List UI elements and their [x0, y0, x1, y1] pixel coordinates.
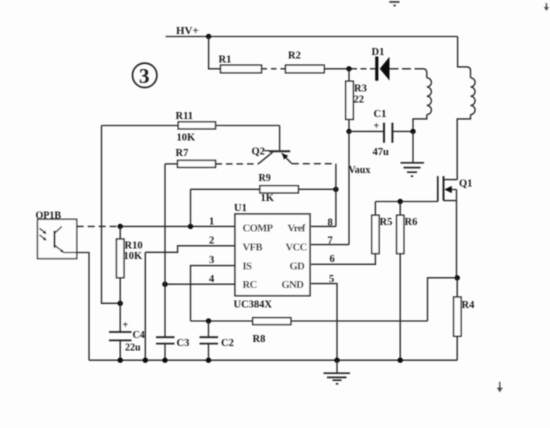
wire VCC pin7	[311, 244, 349, 246]
svg-text:5: 5	[329, 274, 334, 285]
svg-text:OP1B: OP1B	[36, 210, 62, 221]
svg-text:R4: R4	[462, 300, 476, 311]
node R3/C1/Vaux	[346, 129, 351, 134]
resistor R6	[397, 215, 404, 253]
icon down arrow bottom right	[497, 382, 503, 393]
node R6 top	[398, 199, 403, 204]
svg-text:D1: D1	[372, 47, 385, 58]
resistor R5	[372, 215, 379, 253]
svg-text:COMP: COMP	[243, 224, 274, 235]
resistor R1	[221, 65, 262, 73]
node HV+ junction	[206, 34, 211, 39]
svg-text:10K: 10K	[124, 251, 144, 262]
node RC/C3	[162, 282, 167, 287]
svg-text:C2: C2	[221, 338, 234, 349]
resistor R11	[178, 122, 215, 129]
svg-text:+: +	[123, 320, 129, 331]
svg-text:10K: 10K	[177, 133, 197, 144]
resistor R9	[260, 186, 299, 193]
resistor R6 leads	[399, 202, 401, 361]
transformer T1 right winding top lead	[458, 37, 471, 78]
svg-text:GND: GND	[282, 280, 305, 291]
icon scrollbar fragment top	[389, 1, 399, 7]
symbol circled 3	[133, 63, 157, 87]
wire Q2 emitter to Vref pin8	[311, 164, 336, 227]
capacitor C4	[109, 303, 132, 360]
svg-text:+: +	[374, 121, 380, 132]
svg-text:R9: R9	[259, 173, 271, 184]
transformer T1 left winding top lead	[423, 69, 427, 78]
svg-text:Q2: Q2	[252, 146, 265, 157]
svg-text:U1: U1	[234, 203, 247, 214]
node R8/C2	[206, 318, 211, 323]
wire IS pin3	[191, 266, 236, 321]
svg-text:8: 8	[328, 218, 333, 229]
svg-text:R3: R3	[354, 84, 367, 95]
wire R7 left to C3 vertical	[164, 164, 166, 337]
icon down arrow top right	[544, 3, 549, 11]
resistor R4 leads	[456, 278, 458, 360]
svg-text:Vref: Vref	[288, 224, 306, 235]
optocoupler OP1B box	[38, 219, 77, 258]
svg-text:6: 6	[330, 254, 335, 265]
wire VFB to ground rail	[144, 252, 146, 360]
wire R8 to IS vertical	[191, 320, 253, 322]
svg-text:47u: 47u	[373, 147, 390, 158]
svg-text:3: 3	[209, 255, 214, 266]
diode D1	[375, 57, 389, 81]
wire R11 left vertical down	[102, 126, 121, 304]
transformer T1 left winding bottom lead	[413, 115, 427, 132]
svg-text:R2: R2	[288, 51, 301, 62]
capacitor C1	[349, 123, 413, 143]
node C3/rail	[162, 358, 167, 363]
ground aux (under C1)	[401, 131, 425, 176]
wire GND pin5	[311, 284, 337, 361]
resistor R10	[117, 239, 125, 278]
svg-text:R7: R7	[176, 148, 189, 159]
node VFB/rail	[143, 358, 148, 363]
svg-text:R11: R11	[176, 111, 194, 122]
wire HV+ down to R1	[209, 37, 221, 69]
svg-text:22u: 22u	[125, 342, 141, 353]
svg-text:R5: R5	[380, 217, 393, 228]
node C1/winding/ground	[410, 129, 415, 134]
svg-text:C4: C4	[133, 330, 145, 341]
resistor R3	[346, 81, 354, 119]
svg-text:1: 1	[209, 217, 214, 228]
transistor Q2	[259, 126, 292, 164]
node R10/C4/R11	[118, 301, 123, 306]
optocoupler OP1B phototransistor	[55, 227, 64, 253]
svg-text:C1: C1	[374, 109, 387, 120]
wire R11 row	[102, 125, 280, 127]
node R9/Q2 emitter/Vref	[333, 187, 338, 192]
resistor R7 leads	[165, 163, 178, 165]
svg-text:GD: GD	[290, 261, 306, 272]
wire Q2 emitter horizontal	[292, 163, 336, 165]
wire VFB pin2	[145, 246, 235, 253]
svg-text:C3: C3	[177, 338, 190, 349]
node R6/rail	[398, 358, 403, 363]
wire ground rail	[89, 359, 457, 361]
svg-text:RC: RC	[243, 280, 257, 291]
svg-text:Q1: Q1	[459, 179, 472, 190]
node GND/rail	[334, 358, 339, 363]
svg-text:HV+: HV+	[176, 25, 199, 37]
svg-text:VCC: VCC	[286, 243, 307, 254]
resistor R2	[286, 65, 325, 73]
node Q1 source / R4 / sense	[455, 275, 460, 280]
svg-text:4: 4	[209, 274, 215, 285]
resistor R4	[454, 297, 462, 336]
svg-text:7: 7	[328, 236, 333, 247]
transformer T1 right winding	[471, 78, 476, 115]
ground main	[324, 360, 351, 384]
mosfet Q1	[438, 176, 457, 201]
resistor R7	[178, 160, 216, 167]
wire Vaux (node to VCC pin7)	[348, 131, 350, 244]
svg-text:IS: IS	[243, 261, 253, 272]
node C4/rail	[118, 358, 123, 363]
node C2/rail	[206, 358, 211, 363]
svg-text:VFB: VFB	[243, 243, 263, 254]
svg-text:2: 2	[209, 236, 214, 247]
svg-text:R6: R6	[405, 217, 418, 228]
resistor R10 leads	[119, 226, 121, 303]
op-amp U1 IC box	[235, 214, 310, 296]
optocoupler light arrows	[40, 228, 47, 240]
svg-text:R10: R10	[125, 240, 143, 251]
resistor R8	[253, 318, 291, 325]
wire RC pin4	[165, 283, 235, 285]
node R9 to COMP	[188, 224, 193, 229]
svg-text:3: 3	[139, 64, 150, 88]
svg-text:R1: R1	[219, 54, 232, 65]
wire R9 right lead	[298, 188, 336, 190]
wire COMP pin1 (opto collector line)	[62, 225, 77, 227]
wire sense (Q1 source to R8)	[291, 278, 457, 321]
svg-text:UC384X: UC384X	[234, 300, 273, 311]
svg-text:Vaux: Vaux	[349, 165, 371, 176]
resistor R3 leads	[348, 69, 350, 132]
svg-text:1K: 1K	[261, 193, 275, 204]
capacitor C3	[156, 337, 175, 360]
resistor R5 leads	[374, 202, 376, 216]
transformer T1 right winding bottom lead / Q1 drain wire	[457, 115, 470, 180]
wire D1 to transformer	[390, 68, 424, 70]
wire opto emitter to rail	[64, 253, 89, 361]
capacitor C2	[200, 321, 219, 360]
wire R1 to R2	[262, 68, 286, 70]
label Q2 dash	[264, 150, 270, 152]
wire Q1 source	[456, 201, 458, 278]
node A (R2/R3/D1)	[346, 66, 351, 71]
wire gate row	[375, 201, 437, 203]
svg-text:R8: R8	[253, 334, 266, 345]
wire HV+ rail	[166, 36, 458, 38]
wire R2 to node A	[324, 68, 351, 70]
transformer T1 left winding	[427, 78, 432, 115]
node R10 top	[118, 224, 123, 229]
wire R9 left lead down	[191, 189, 260, 226]
wire GD pin6 to R5	[311, 254, 375, 265]
svg-text:22: 22	[354, 95, 365, 106]
